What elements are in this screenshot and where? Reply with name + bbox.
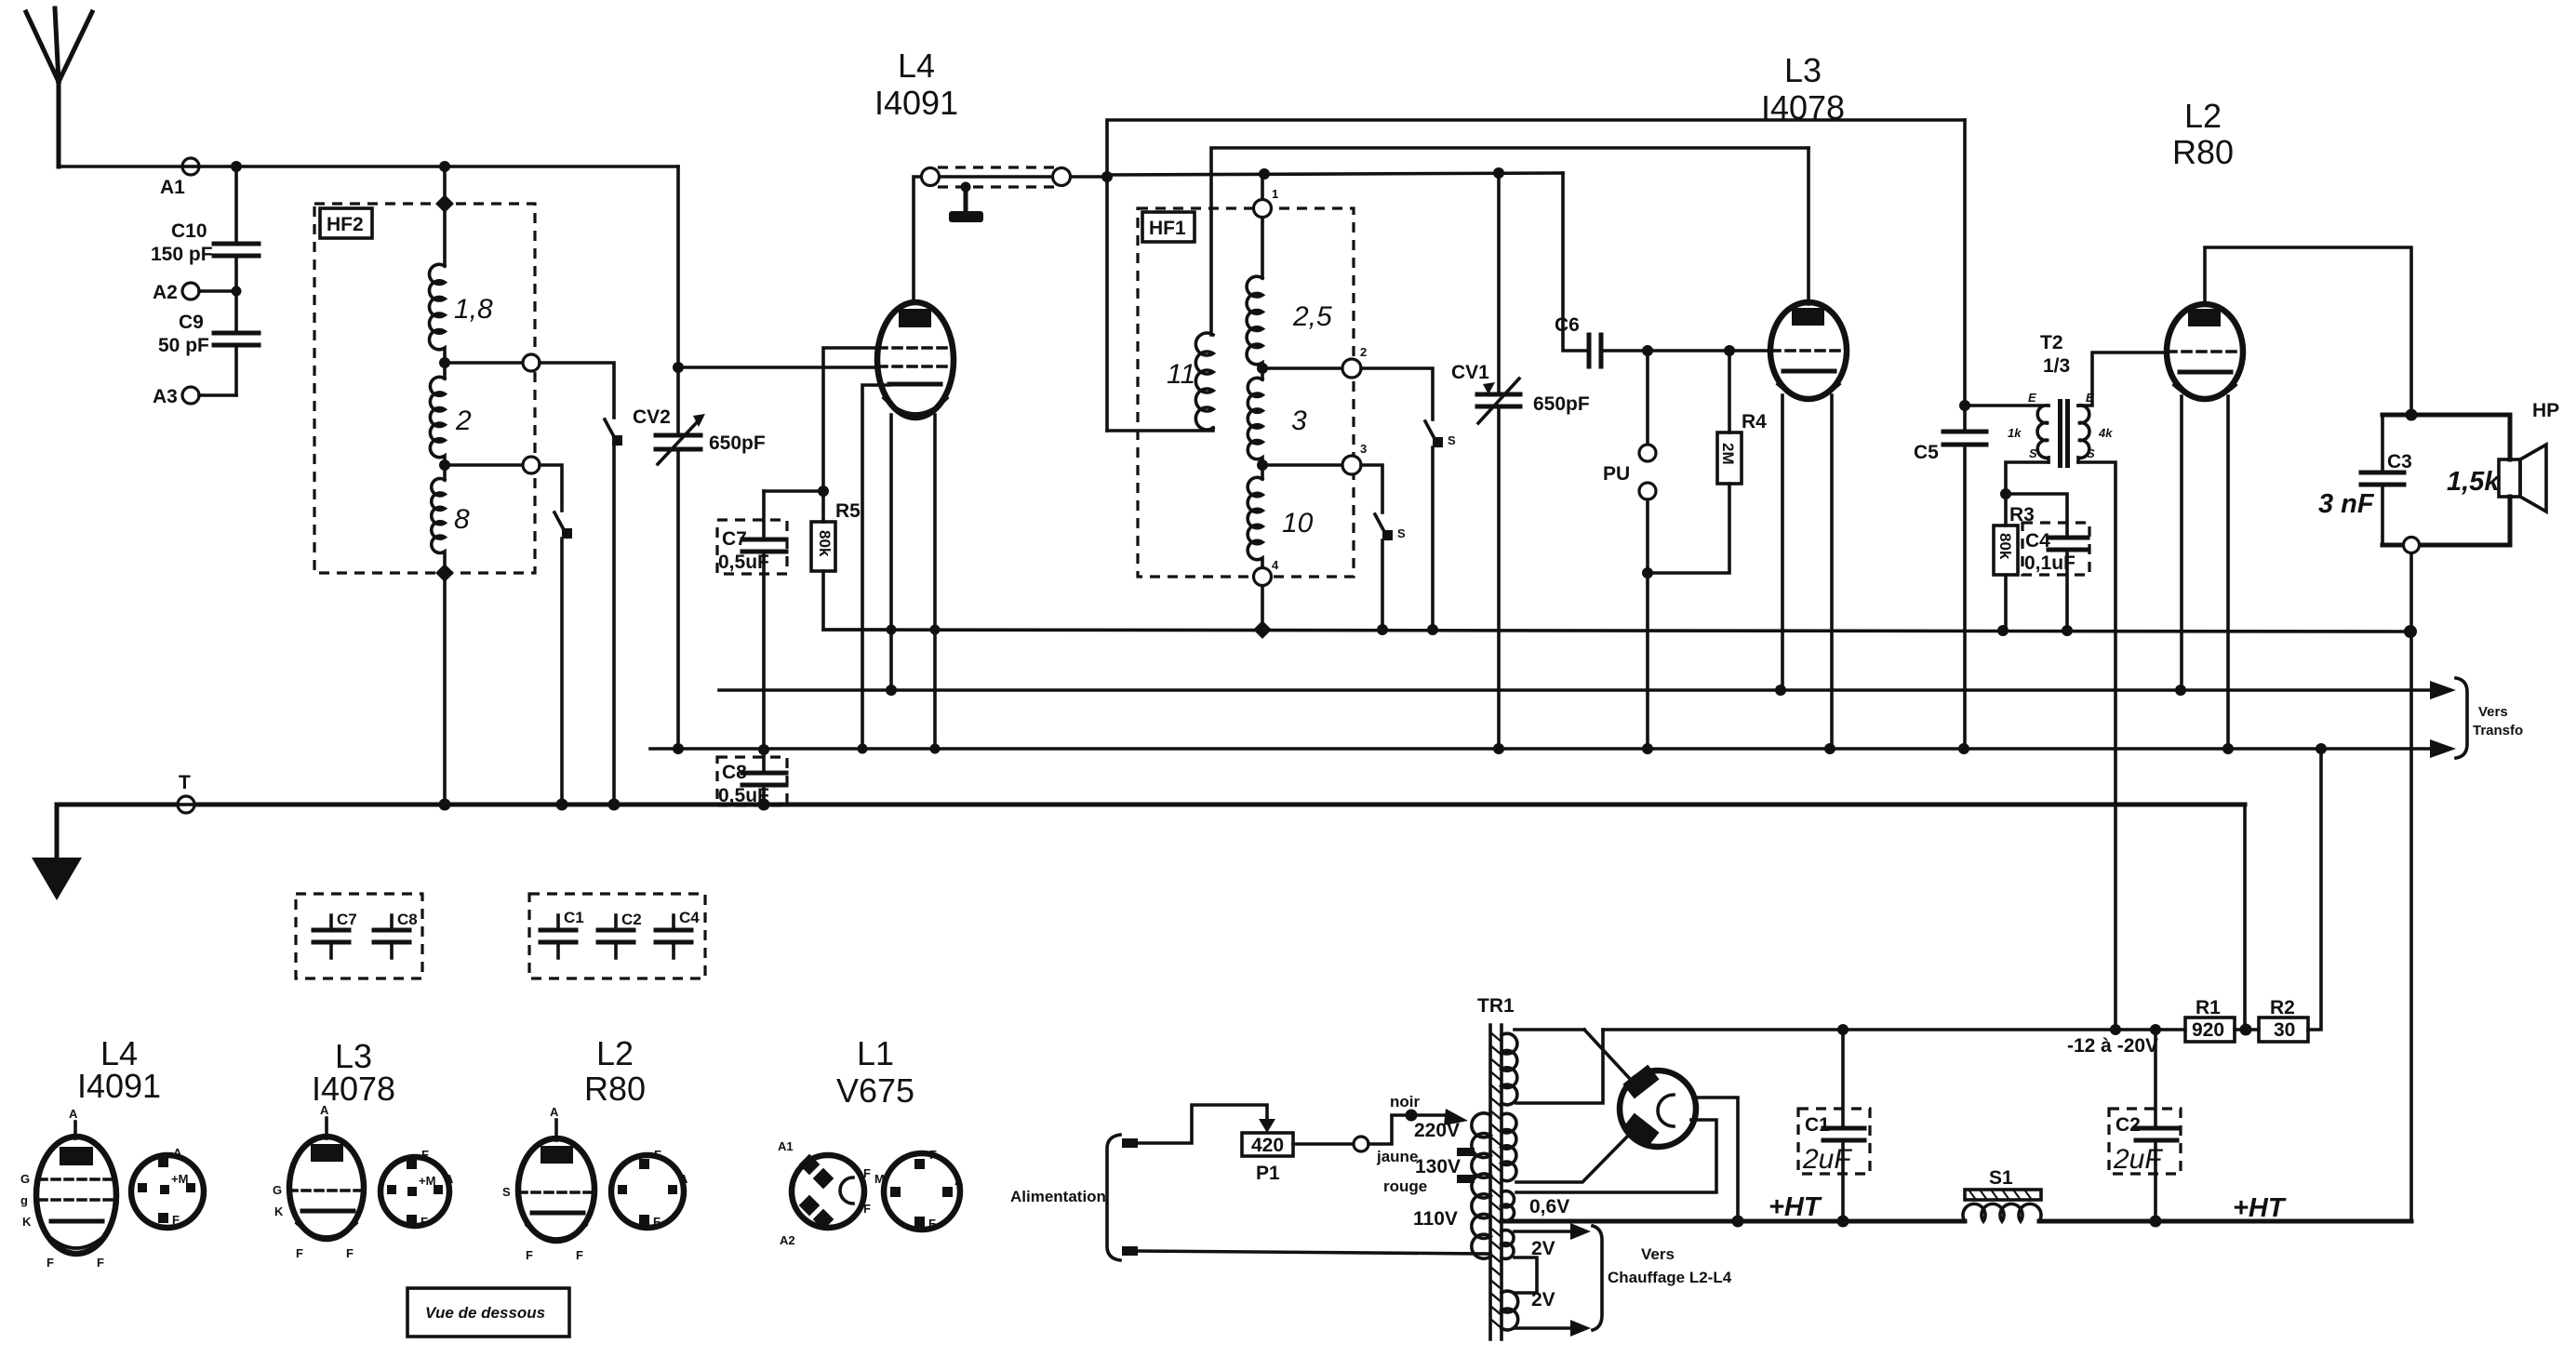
capacitor C2 (filter) <box>2109 1030 2181 1221</box>
wire L4 cathode leg <box>862 385 889 749</box>
svg-text:A1: A1 <box>160 177 185 198</box>
svg-text:1k: 1k <box>2008 426 2022 440</box>
svg-text:2: 2 <box>1360 345 1367 359</box>
transformer TR1 label <box>1477 995 1515 1017</box>
resistor R1 <box>2185 997 2259 1042</box>
tube L3 <box>1770 302 1847 399</box>
svg-text:2V: 2V <box>1531 1289 1555 1310</box>
svg-text:K: K <box>22 1215 32 1229</box>
svg-text:F: F <box>928 1217 936 1231</box>
coil 3 <box>1248 378 1307 479</box>
svg-text:F: F <box>654 1148 661 1162</box>
resistor R2 <box>2259 749 2321 1042</box>
node HF2 tap1 <box>439 354 614 418</box>
transformer TR1 core <box>1490 1025 1502 1339</box>
svg-text:P1: P1 <box>1256 1163 1280 1184</box>
svg-text:A3: A3 <box>153 386 178 407</box>
svg-text:150 pF: 150 pF <box>151 244 213 265</box>
tube L2 <box>2167 304 2243 399</box>
svg-text:C8: C8 <box>722 762 747 783</box>
svg-text:R2: R2 <box>2270 997 2295 1018</box>
svg-text:PU: PU <box>1603 463 1630 485</box>
svg-text:S: S <box>2029 446 2037 460</box>
label L3 bottom <box>312 1037 395 1108</box>
svg-text:T: T <box>179 772 191 793</box>
svg-text:420: 420 <box>1251 1135 1284 1156</box>
svg-text:L4: L4 <box>898 47 935 85</box>
speaker HP <box>2447 400 2559 512</box>
bus 3 (heater/chassis line 2) <box>650 739 2456 758</box>
bus 1 (grid return line) <box>823 620 2417 639</box>
svg-text:Alimentation: Alimentation <box>1010 1188 1106 1205</box>
svg-text:HF1: HF1 <box>1149 218 1186 239</box>
tube L4 <box>877 302 954 418</box>
wire coil11 bottom feed <box>1107 428 1213 431</box>
svg-text:F: F <box>863 1202 871 1216</box>
pickup PU terminals <box>1603 351 1656 749</box>
svg-text:A: A <box>69 1107 78 1121</box>
socket L3 bottom view <box>380 1148 454 1229</box>
svg-text:F: F <box>346 1246 354 1260</box>
ground T line (bus 4) <box>57 799 2245 811</box>
transformer T2 <box>1965 332 2113 468</box>
variable capacitor CV2 wire <box>673 166 684 750</box>
svg-text:220V: 220V <box>1414 1120 1460 1141</box>
capacitor C1 (filter) <box>1798 1030 1870 1221</box>
svg-text:I4078: I4078 <box>312 1070 395 1108</box>
capacitor C9 <box>158 291 259 395</box>
svg-text:11: 11 <box>1167 359 1195 390</box>
svg-text:C2: C2 <box>621 911 642 928</box>
wire L3 heater leg 1 <box>1781 395 1784 690</box>
tube L3 side view <box>273 1103 364 1260</box>
resistor R4 <box>1648 351 1767 573</box>
socket L4 bottom view <box>131 1146 204 1228</box>
svg-text:K: K <box>274 1204 284 1218</box>
svg-text:650pF: 650pF <box>1533 393 1590 415</box>
svg-text:CV2: CV2 <box>633 406 671 428</box>
svg-text:L2: L2 <box>596 1034 634 1072</box>
svg-text:80k: 80k <box>1996 533 2014 560</box>
wire HP to +HT rail <box>2409 553 2413 1221</box>
svg-text:110V: 110V <box>1413 1208 1458 1230</box>
capacitor C4 <box>2006 494 2089 631</box>
svg-text:A1: A1 <box>778 1139 794 1153</box>
svg-text:2,5: 2,5 <box>1292 301 1332 332</box>
svg-text:R80: R80 <box>2172 133 2234 171</box>
wire L2 heater leg 2 <box>2226 396 2230 749</box>
ground symbol <box>32 805 82 900</box>
terminal HP bottom <box>2404 538 2420 553</box>
capacitor C5 <box>1914 120 1986 749</box>
wire link net to HF1/CV1 <box>1107 167 1563 180</box>
svg-text:F: F <box>172 1213 180 1227</box>
svg-text:C1: C1 <box>564 909 584 926</box>
svg-text:S1: S1 <box>1989 1167 2013 1189</box>
node HF2 tap2 <box>439 457 562 511</box>
svg-text:I4091: I4091 <box>874 84 958 122</box>
label L2 bottom <box>584 1034 646 1108</box>
wire L2 heater leg 1 <box>2180 396 2183 690</box>
svg-text:HP: HP <box>2532 400 2559 421</box>
wire T2 primary bottom to R3 node <box>2000 462 2049 499</box>
wire grid1 of L4 <box>823 348 878 491</box>
svg-text:A2: A2 <box>780 1233 795 1247</box>
node 4 of HF1 <box>1254 558 1280 630</box>
wire grid2 of L4 <box>678 366 878 369</box>
socket L2 bottom view <box>611 1148 688 1229</box>
svg-text:R1: R1 <box>2196 997 2221 1018</box>
svg-text:4: 4 <box>1272 558 1279 572</box>
svg-text:F: F <box>421 1148 429 1162</box>
bracket Vers Chauffage <box>1593 1226 1732 1330</box>
svg-text:Vers: Vers <box>2478 704 2508 720</box>
coil HF2 2 <box>430 377 472 480</box>
bus 2 (heater line 1) <box>719 681 2456 699</box>
ground on link <box>949 182 983 223</box>
capacitor C7 <box>717 491 787 750</box>
svg-text:8: 8 <box>454 504 470 535</box>
svg-text:F: F <box>576 1248 583 1262</box>
svg-text:jaune: jaune <box>1376 1148 1418 1165</box>
svg-text:T2: T2 <box>2040 332 2063 353</box>
potentiometer P1 <box>1242 1115 1446 1184</box>
switch on tap1 wire <box>605 419 622 805</box>
svg-text:C3: C3 <box>2387 451 2412 472</box>
svg-text:S: S <box>2087 446 2095 460</box>
svg-text:F: F <box>296 1246 303 1260</box>
svg-text:S: S <box>1448 433 1456 447</box>
transformer TR1 2V winding C <box>1502 1223 1591 1293</box>
svg-text:g: g <box>20 1193 28 1207</box>
transformer TR1 HT winding A <box>1502 1030 1631 1105</box>
terminal A2 <box>153 282 242 303</box>
label -12 a -20V <box>2067 1035 2158 1057</box>
svg-text:F: F <box>97 1256 104 1270</box>
wire mains bottom lead <box>1122 1246 1490 1256</box>
tube L4 side view <box>20 1107 116 1270</box>
svg-text:C8: C8 <box>397 911 418 928</box>
dashed box C1 C2 C4 spares <box>529 894 705 978</box>
terminal A3 <box>153 386 236 407</box>
wire filament lower to 0,6V winding <box>1516 1120 1716 1192</box>
svg-text:F: F <box>526 1248 533 1262</box>
wire filament upper to +HT <box>1693 1098 1738 1221</box>
wire L3 plate <box>1807 148 1810 304</box>
wire top line 1 <box>1101 120 1965 431</box>
svg-text:F: F <box>420 1215 428 1229</box>
svg-text:A: A <box>550 1105 559 1119</box>
svg-text:noir: noir <box>1390 1093 1420 1111</box>
bracket Alimentation <box>1010 1135 1120 1260</box>
svg-text:650pF: 650pF <box>709 432 766 454</box>
node 3 of HF1 <box>1257 442 1382 512</box>
svg-text:C4: C4 <box>2025 530 2050 552</box>
socket L1 view 2 <box>874 1148 964 1231</box>
svg-text:C2: C2 <box>2116 1114 2141 1136</box>
svg-text:S: S <box>502 1185 511 1199</box>
svg-text:3: 3 <box>1360 442 1367 456</box>
socket L1 view 1 <box>778 1139 871 1247</box>
switch on tap2 wire <box>554 512 572 805</box>
svg-text:Vue de dessous: Vue de dessous <box>425 1304 545 1322</box>
wire L4 heater leg 2 <box>933 415 937 749</box>
svg-text:4k: 4k <box>2098 426 2113 440</box>
svg-text:A: A <box>445 1172 454 1186</box>
svg-text:R5: R5 <box>835 500 861 522</box>
tube L2 side view <box>502 1105 594 1262</box>
svg-text:C9: C9 <box>179 312 204 333</box>
svg-text:+M: +M <box>171 1172 188 1186</box>
switch S2 of HF1 <box>1375 514 1406 630</box>
svg-text:C4: C4 <box>679 909 700 926</box>
svg-text:80k: 80k <box>816 530 834 557</box>
resistor R3 <box>1994 494 2035 631</box>
capacitor C6 <box>1555 173 1771 366</box>
svg-text:1,5k: 1,5k <box>2447 467 2501 497</box>
svg-text:A: A <box>173 1146 182 1160</box>
inductor S1 (HF choke) <box>1963 1167 2041 1221</box>
svg-text:C7: C7 <box>337 911 357 928</box>
capacitor C3 <box>2318 451 2412 519</box>
svg-text:rouge: rouge <box>1383 1177 1427 1195</box>
svg-text:+M: +M <box>419 1174 435 1188</box>
dashed link coupling <box>922 167 1108 187</box>
box Vue de dessous <box>407 1288 569 1337</box>
svg-text:3: 3 <box>1291 406 1307 436</box>
svg-text:TR1: TR1 <box>1477 995 1515 1017</box>
resistor R5 <box>764 486 891 630</box>
transformer TR1 2V winding D <box>1502 1289 1591 1337</box>
svg-text:I4078: I4078 <box>1761 88 1845 126</box>
wire top line 2 <box>1211 148 1809 335</box>
svg-text:0,5uF: 0,5uF <box>718 785 769 806</box>
svg-text:50 pF: 50 pF <box>158 335 209 356</box>
svg-text:F: F <box>47 1256 54 1270</box>
wire mains top lead <box>1122 1105 1275 1148</box>
label +HT right <box>2233 1193 2287 1223</box>
variable capacitor CV2 <box>633 406 766 464</box>
node 1 of HF1 <box>1254 174 1279 278</box>
wire T line to R1/R2 node <box>2243 805 2247 1023</box>
svg-text:E: E <box>2028 391 2036 405</box>
svg-text:V675: V675 <box>836 1071 914 1110</box>
svg-text:G: G <box>20 1172 30 1186</box>
svg-text:S: S <box>1397 526 1406 540</box>
svg-text:2uF: 2uF <box>2113 1144 2163 1175</box>
svg-text:+HT: +HT <box>1768 1192 1822 1222</box>
svg-text:Vers: Vers <box>1641 1245 1675 1263</box>
switch S1 of HF1 <box>1425 421 1456 630</box>
svg-text:R4: R4 <box>1742 411 1767 432</box>
svg-text:F: F <box>863 1166 871 1180</box>
svg-text:I4091: I4091 <box>77 1067 161 1105</box>
svg-text:3 nF: 3 nF <box>2318 489 2375 519</box>
svg-text:C7: C7 <box>722 528 747 550</box>
node HF2 top junction <box>439 161 450 266</box>
svg-text:+HT: +HT <box>2233 1193 2287 1223</box>
HF1 shield dashed box <box>1138 208 1354 577</box>
svg-text:C6: C6 <box>1555 314 1580 336</box>
svg-text:F: F <box>653 1215 661 1229</box>
svg-text:0,6V: 0,6V <box>1529 1196 1569 1217</box>
svg-text:Chauffage L2-L4: Chauffage L2-L4 <box>1608 1269 1732 1286</box>
svg-text:L1: L1 <box>857 1034 894 1072</box>
transformer TR1 0,6V winding <box>1502 1191 1569 1221</box>
svg-text:A2: A2 <box>153 282 178 303</box>
dashed box C7 C8 spares <box>296 894 422 978</box>
coil 10 <box>1248 477 1314 568</box>
wire L4 heater leg 1 <box>889 415 893 690</box>
label L1 bottom <box>836 1034 914 1110</box>
svg-text:CV1: CV1 <box>1451 362 1489 383</box>
svg-text:M: M <box>874 1172 885 1186</box>
coil 2,5 <box>1247 276 1332 379</box>
HP output network box <box>2382 409 2510 546</box>
wire L4 plate to link <box>914 177 922 302</box>
tube L2 label <box>2172 97 2234 171</box>
svg-text:G: G <box>273 1183 282 1197</box>
node junction at C10 top <box>231 161 242 244</box>
svg-text:1: 1 <box>1272 187 1278 201</box>
node 2 of HF1 <box>1257 345 1433 419</box>
node noir <box>1390 1093 1468 1125</box>
wire L2 plate to HP <box>2205 247 2411 415</box>
svg-text:0,1uF: 0,1uF <box>2024 552 2075 574</box>
svg-text:C5: C5 <box>1914 442 1939 463</box>
svg-text:A: A <box>679 1172 688 1186</box>
svg-text:2uF: 2uF <box>1802 1144 1852 1175</box>
svg-text:L2: L2 <box>2184 97 2222 135</box>
capacitor C8 <box>717 744 787 806</box>
transformer TR1 primary winding <box>1376 1113 1490 1258</box>
svg-text:2: 2 <box>455 406 472 436</box>
svg-text:1/3: 1/3 <box>2043 355 2070 377</box>
svg-text:R80: R80 <box>584 1070 646 1108</box>
tube L3 label <box>1761 51 1845 126</box>
svg-text:10: 10 <box>1282 508 1314 539</box>
svg-text:2M: 2M <box>1719 443 1737 465</box>
wire T2 secondary top to L2 grid <box>2078 353 2168 406</box>
label +HT left <box>1768 1192 1822 1222</box>
wire L3 heater leg 2 <box>1830 395 1834 749</box>
svg-text:Transfo: Transfo <box>2473 723 2523 738</box>
wire T2 secondary bottom <box>2078 462 2116 1030</box>
svg-text:A: A <box>954 1174 964 1188</box>
variable capacitor CV1 <box>1451 173 1590 749</box>
svg-text:1,8: 1,8 <box>454 294 493 325</box>
svg-text:C1: C1 <box>1805 1114 1830 1136</box>
svg-text:F: F <box>929 1148 937 1162</box>
bracket Vers Transfo <box>2456 678 2523 758</box>
coil HF2 1,8 <box>429 264 493 379</box>
svg-text:0,5uF: 0,5uF <box>718 552 769 573</box>
rail +HT bottom <box>1502 1216 2411 1228</box>
terminal A1 <box>160 158 199 198</box>
rectifier tube L1 <box>1620 1065 1696 1148</box>
svg-text:HF2: HF2 <box>327 214 364 235</box>
coil HF2 8 <box>432 479 470 805</box>
svg-text:A: A <box>320 1103 329 1117</box>
svg-text:C10: C10 <box>171 220 207 242</box>
svg-text:-12 à -20V: -12 à -20V <box>2067 1035 2158 1057</box>
transformer TR1 HT winding B <box>1502 1113 1631 1182</box>
svg-text:L3: L3 <box>1784 51 1822 89</box>
antenna <box>26 8 92 166</box>
capacitor C10 <box>151 220 259 291</box>
svg-text:920: 920 <box>2192 1019 2224 1041</box>
rail negative top <box>1603 1024 2185 1035</box>
tube L4 label <box>874 47 958 122</box>
svg-text:130V: 130V <box>1415 1156 1461 1177</box>
svg-text:30: 30 <box>2274 1019 2295 1041</box>
terminal T <box>178 772 194 813</box>
coil 11 <box>1167 333 1213 430</box>
wire A1 line <box>59 165 678 168</box>
HF2 shield dashed box <box>314 194 535 582</box>
label L4 bottom <box>77 1034 161 1105</box>
